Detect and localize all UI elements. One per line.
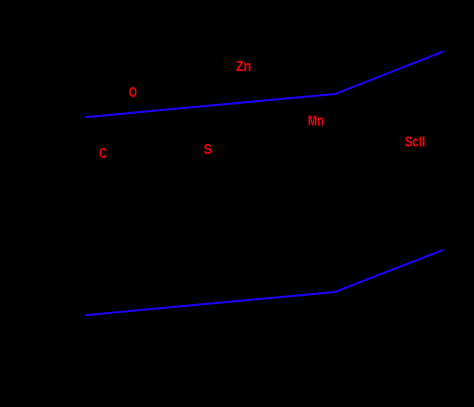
svg-text:ScII: ScII <box>405 133 426 150</box>
svg-text:Zn: Zn <box>236 57 251 74</box>
svg-text:Mn: Mn <box>308 112 324 129</box>
svg-text:S: S <box>204 140 212 157</box>
svg-text:C: C <box>99 145 108 162</box>
lower abundance curve <box>85 250 443 315</box>
svg-text:O: O <box>129 83 137 100</box>
upper abundance curve <box>85 52 443 118</box>
